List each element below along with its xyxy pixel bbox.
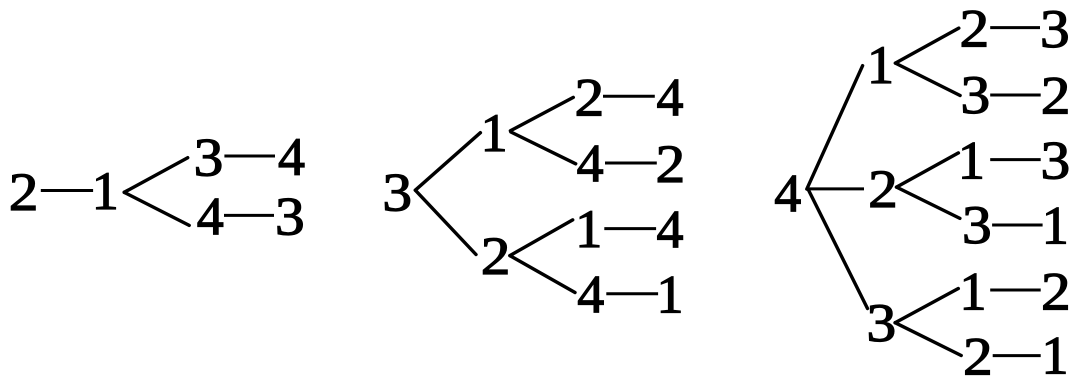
svg-text:4: 4	[577, 265, 604, 325]
svg-text:2: 2	[481, 226, 511, 286]
svg-text:2: 2	[575, 68, 605, 128]
svg-text:3: 3	[866, 294, 896, 354]
svg-text:1: 1	[481, 103, 508, 163]
svg-text:2: 2	[9, 163, 39, 223]
svg-text:3: 3	[1040, 131, 1070, 191]
svg-text:2: 2	[959, 0, 989, 59]
svg-text:1: 1	[92, 161, 119, 221]
svg-text:4: 4	[657, 199, 684, 259]
svg-text:3: 3	[275, 187, 305, 247]
svg-text:1: 1	[1042, 196, 1069, 256]
svg-text:3: 3	[194, 128, 224, 188]
svg-text:2: 2	[1041, 66, 1071, 126]
svg-text:3: 3	[960, 66, 990, 126]
svg-text:2: 2	[1041, 262, 1071, 322]
svg-text:1: 1	[575, 199, 602, 259]
svg-text:1: 1	[960, 262, 987, 322]
svg-text:1: 1	[1042, 326, 1069, 386]
svg-text:1: 1	[657, 265, 684, 325]
svg-text:4: 4	[657, 68, 684, 128]
svg-text:1: 1	[958, 131, 985, 191]
svg-text:3: 3	[962, 196, 992, 256]
svg-text:2: 2	[963, 327, 993, 386]
svg-text:3: 3	[382, 163, 412, 223]
svg-text:2: 2	[868, 160, 898, 220]
svg-text:1: 1	[867, 35, 894, 95]
svg-text:4: 4	[774, 163, 801, 223]
svg-text:2: 2	[656, 134, 686, 194]
svg-text:4: 4	[197, 186, 224, 246]
svg-text:4: 4	[577, 134, 604, 194]
svg-text:3: 3	[1040, 0, 1070, 59]
svg-text:4: 4	[278, 127, 305, 187]
